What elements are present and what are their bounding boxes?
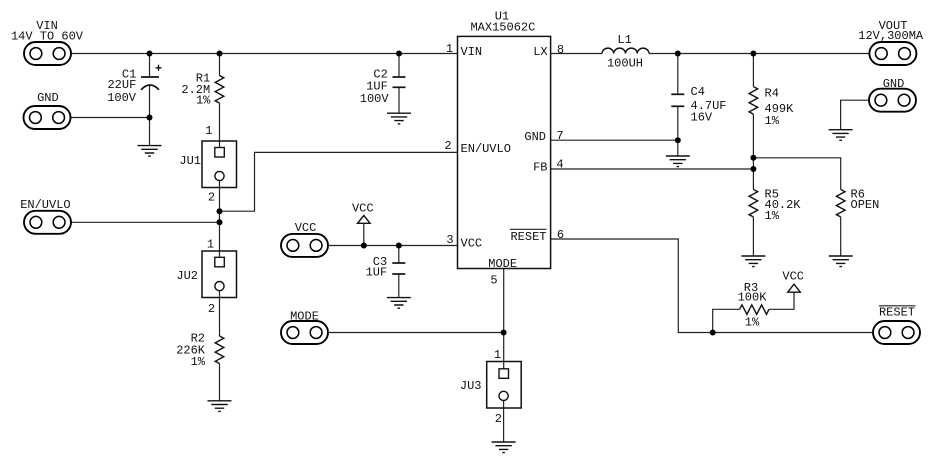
ground below R6 [829, 256, 853, 267]
svg-text:3: 3 [446, 233, 453, 247]
op-amp U1 MAX15062C body [458, 36, 551, 268]
resistor R6 labels [851, 188, 880, 213]
power VCC symbol near C3 [352, 201, 374, 223]
capacitor C1 labels [107, 68, 137, 105]
wire R3 left lead [713, 309, 740, 332]
wire JU3 pin 2 to ground [503, 401, 505, 443]
jumper JU2 labels [176, 238, 215, 317]
wire VIN rail [71, 53, 458, 55]
wire EN/UVLO net from U1 pin 2 [220, 152, 458, 211]
svg-text:EN/UVLO: EN/UVLO [461, 142, 511, 156]
svg-text:C4: C4 [691, 85, 705, 99]
wire feedback node to R6 [753, 158, 840, 190]
svg-text:RESET: RESET [510, 230, 546, 244]
junction VIN/C2 [396, 51, 402, 57]
wire R6 to ground [840, 217, 842, 256]
ground below GND connector right [829, 130, 853, 141]
wire MODE connector to node [328, 332, 504, 334]
svg-text:MODE: MODE [290, 310, 319, 324]
svg-text:GND: GND [37, 91, 59, 105]
resistor R4 [749, 87, 758, 115]
svg-text:1%: 1% [191, 355, 206, 369]
wire LX pin 8 to L1 [551, 53, 602, 55]
svg-text:FB: FB [533, 160, 547, 174]
svg-text:MODE: MODE [488, 257, 517, 271]
wire R4 bottom to R5 top [752, 114, 754, 189]
jumper JU1 labels [179, 124, 215, 205]
resistor R4 labels [765, 87, 795, 128]
resistor R1 labels [181, 71, 211, 107]
capacitor C4 labels [691, 85, 727, 125]
wire GND pin 7 [551, 139, 678, 141]
junction VCC/C3 [396, 243, 402, 249]
svg-text:5: 5 [490, 274, 497, 288]
wire RESET pin 6 to RESET connector [551, 239, 874, 333]
junction GND/C1 [147, 115, 153, 121]
resistor R3 [740, 305, 770, 314]
svg-text:1%: 1% [196, 94, 211, 108]
connector J-VIN body [24, 42, 71, 65]
ground below C1 [138, 146, 162, 157]
svg-text:JU2: JU2 [176, 269, 198, 283]
svg-text:LX: LX [533, 45, 547, 59]
resistor R6 [836, 189, 845, 217]
capacitor C3 labels [366, 255, 388, 280]
wire R3 right lead to VCC [769, 292, 794, 309]
svg-text:VCC: VCC [782, 270, 804, 284]
svg-text:100UH: 100UH [607, 57, 643, 71]
capacitor C3 [392, 263, 405, 274]
svg-text:1: 1 [446, 42, 453, 56]
resistor R3 labels [738, 281, 768, 330]
svg-text:16V: 16V [691, 111, 713, 125]
junction R4/R6 [750, 155, 756, 161]
wire R4 top lead [752, 54, 754, 87]
svg-text:1%: 1% [765, 209, 780, 223]
ground below C3 [387, 298, 411, 309]
svg-text:VCC: VCC [461, 236, 483, 250]
wire L1 to VOUT [649, 53, 869, 55]
connector J-EN/UVLO body [24, 211, 71, 234]
svg-text:1: 1 [207, 238, 214, 252]
connector J-MODE body [281, 321, 328, 344]
svg-text:100V: 100V [360, 92, 390, 106]
svg-text:R4: R4 [765, 87, 779, 101]
wire JU2 pin 2 to R2 [219, 291, 221, 336]
svg-text:EN/UVLO: EN/UVLO [20, 198, 70, 212]
junction GND/C4 [675, 137, 681, 143]
svg-text:1: 1 [494, 348, 501, 362]
connector J-GND left body [24, 106, 71, 129]
resistor R1 [215, 76, 224, 104]
svg-text:6: 6 [557, 228, 564, 242]
wire R2 to ground [219, 364, 221, 401]
svg-text:RESET: RESET [879, 306, 915, 320]
svg-text:2: 2 [495, 412, 502, 426]
connector J-RESET body [873, 321, 920, 344]
wire VCC rail to U1 pin 3 [328, 245, 458, 247]
resistor R2 [215, 336, 224, 364]
junction VIN/R1 [217, 51, 223, 57]
svg-text:MAX15062C: MAX15062C [470, 20, 535, 34]
wire C3 top lead [398, 246, 400, 264]
junction RESET/R3 [710, 330, 716, 336]
wire C1 bottom lead to ground [149, 85, 151, 145]
wire C2 top lead [398, 54, 400, 78]
svg-text:2: 2 [208, 191, 215, 205]
wire JU1 pin 2 to JU2 pin 1 [219, 181, 221, 258]
node RESET label overline [879, 305, 916, 307]
connector J-GND right body [869, 89, 916, 112]
junction MODE/JU3 [501, 330, 507, 336]
wire U1 pin 5 MODE to JU3 pin 1 [503, 269, 505, 370]
svg-text:L1: L1 [617, 33, 631, 47]
svg-text:1%: 1% [765, 114, 780, 128]
capacitor C2 labels [360, 68, 390, 106]
ground below C4 GND node [666, 156, 690, 167]
wire EN/UVLO connector [71, 221, 220, 223]
ground below R5 [741, 256, 765, 267]
svg-text:8: 8 [557, 43, 564, 57]
svg-text:VCC: VCC [352, 201, 374, 215]
junction VCC symbol node [361, 243, 367, 249]
svg-text:1: 1 [205, 124, 212, 138]
capacitor C4 [671, 94, 684, 106]
jumper JU2 [202, 251, 237, 298]
connector J-VCC body [281, 234, 328, 257]
svg-text:VIN: VIN [461, 45, 483, 59]
svg-text:JU3: JU3 [460, 379, 482, 393]
svg-text:7: 7 [556, 129, 563, 143]
junction EN/UVLO lower [217, 219, 223, 225]
junction EN/UVLO upper [217, 208, 223, 214]
jumper JU3 [487, 362, 522, 409]
wire GND connector right to ground [841, 100, 870, 130]
ground below R2 [208, 401, 232, 412]
svg-text:4: 4 [556, 158, 563, 172]
capacitor C1 [141, 65, 162, 90]
svg-text:GND: GND [524, 130, 546, 144]
svg-text:100V: 100V [107, 91, 137, 105]
junction FB node [750, 166, 756, 172]
svg-text:OPEN: OPEN [851, 198, 880, 212]
junction VOUT/R4 [750, 51, 756, 57]
connector J-VOUT body [869, 42, 916, 65]
inductor L1 [602, 48, 649, 53]
svg-text:VCC: VCC [295, 221, 317, 235]
wire C4 bottom lead [677, 106, 679, 140]
resistor R5 labels [765, 188, 802, 224]
wire VCC symbol lead [363, 223, 365, 245]
junction VIN/C1 [147, 51, 153, 57]
svg-text:JU1: JU1 [179, 154, 201, 168]
resistor R5 [749, 189, 758, 217]
svg-text:1%: 1% [745, 315, 760, 329]
ground below C2 [387, 113, 411, 124]
junction LX/C4 [675, 51, 681, 57]
jumper JU3 labels [460, 348, 502, 426]
capacitor C2 [393, 77, 406, 87]
wire C4 top lead [677, 54, 679, 95]
jumper JU1 [202, 141, 237, 188]
resistor R2 labels [176, 332, 206, 369]
wire C1 top lead [149, 54, 151, 78]
svg-text:2: 2 [444, 139, 451, 153]
svg-text:12V,300MA: 12V,300MA [858, 29, 924, 43]
svg-text:2: 2 [208, 302, 215, 316]
ground below JU3 [492, 442, 516, 453]
U1 RESET pin overline [510, 228, 547, 230]
wire R1 top lead [219, 54, 221, 76]
svg-text:1UF: 1UF [366, 266, 388, 280]
power VCC symbol near R3 [782, 270, 804, 293]
wire R5 to ground [752, 217, 754, 256]
svg-text:100K: 100K [738, 291, 768, 305]
svg-text:GND: GND [883, 77, 905, 91]
wire R1 bottom lead to JU1 pin 1 [219, 103, 221, 148]
wire C2 bottom lead to ground [398, 87, 400, 113]
wire GND connector to C1 [71, 117, 150, 119]
wire C3 bottom lead to ground [398, 274, 400, 298]
wire FB pin 4 [551, 168, 754, 170]
inductor L1 labels [607, 33, 643, 71]
svg-text:14V TO 60V: 14V TO 60V [11, 30, 84, 44]
wire C4 node to ground [677, 140, 679, 156]
